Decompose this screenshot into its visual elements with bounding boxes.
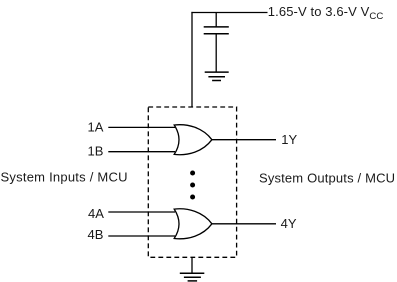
capacitor C1 plate 1: [204, 26, 229, 28]
svg-text:4B: 4B: [87, 227, 103, 242]
ellipsis dots between gates: [190, 171, 195, 200]
svg-text:1B: 1B: [87, 144, 103, 159]
OR gate U1A: [174, 125, 212, 155]
wire input 4B: [108, 235, 175, 237]
svg-text:System Inputs / MCU: System Inputs / MCU: [1, 170, 128, 185]
wire input 4A: [108, 211, 175, 213]
capacitor C1 plate 2: [204, 33, 229, 35]
wire ground stub (package): [191, 257, 193, 273]
OR gate U1D: [174, 209, 212, 239]
wire capacitor bottom stub: [215, 34, 217, 72]
svg-text:1.65-V to 3.6-V V: 1.65-V to 3.6-V V: [268, 4, 370, 19]
package outline (dashed box): [148, 107, 236, 257]
wire Vcc vertical down to package: [191, 12, 193, 107]
ground (capacitor): [205, 72, 229, 80]
svg-text:System Outputs / MCU: System Outputs / MCU: [259, 171, 395, 186]
ground (package): [180, 273, 205, 281]
wire capacitor top stub: [215, 13, 217, 27]
svg-text:1A: 1A: [87, 120, 103, 135]
wire output 1Y: [211, 139, 276, 141]
wire input 1A: [108, 126, 175, 128]
svg-text:1Y: 1Y: [281, 132, 297, 147]
svg-text:CC: CC: [369, 11, 383, 22]
wire output 4Y: [211, 223, 276, 225]
wire Vcc top horizontal: [191, 12, 267, 14]
svg-text:4A: 4A: [88, 206, 104, 221]
wire input 1B: [108, 151, 175, 153]
svg-text:4Y: 4Y: [281, 216, 297, 231]
